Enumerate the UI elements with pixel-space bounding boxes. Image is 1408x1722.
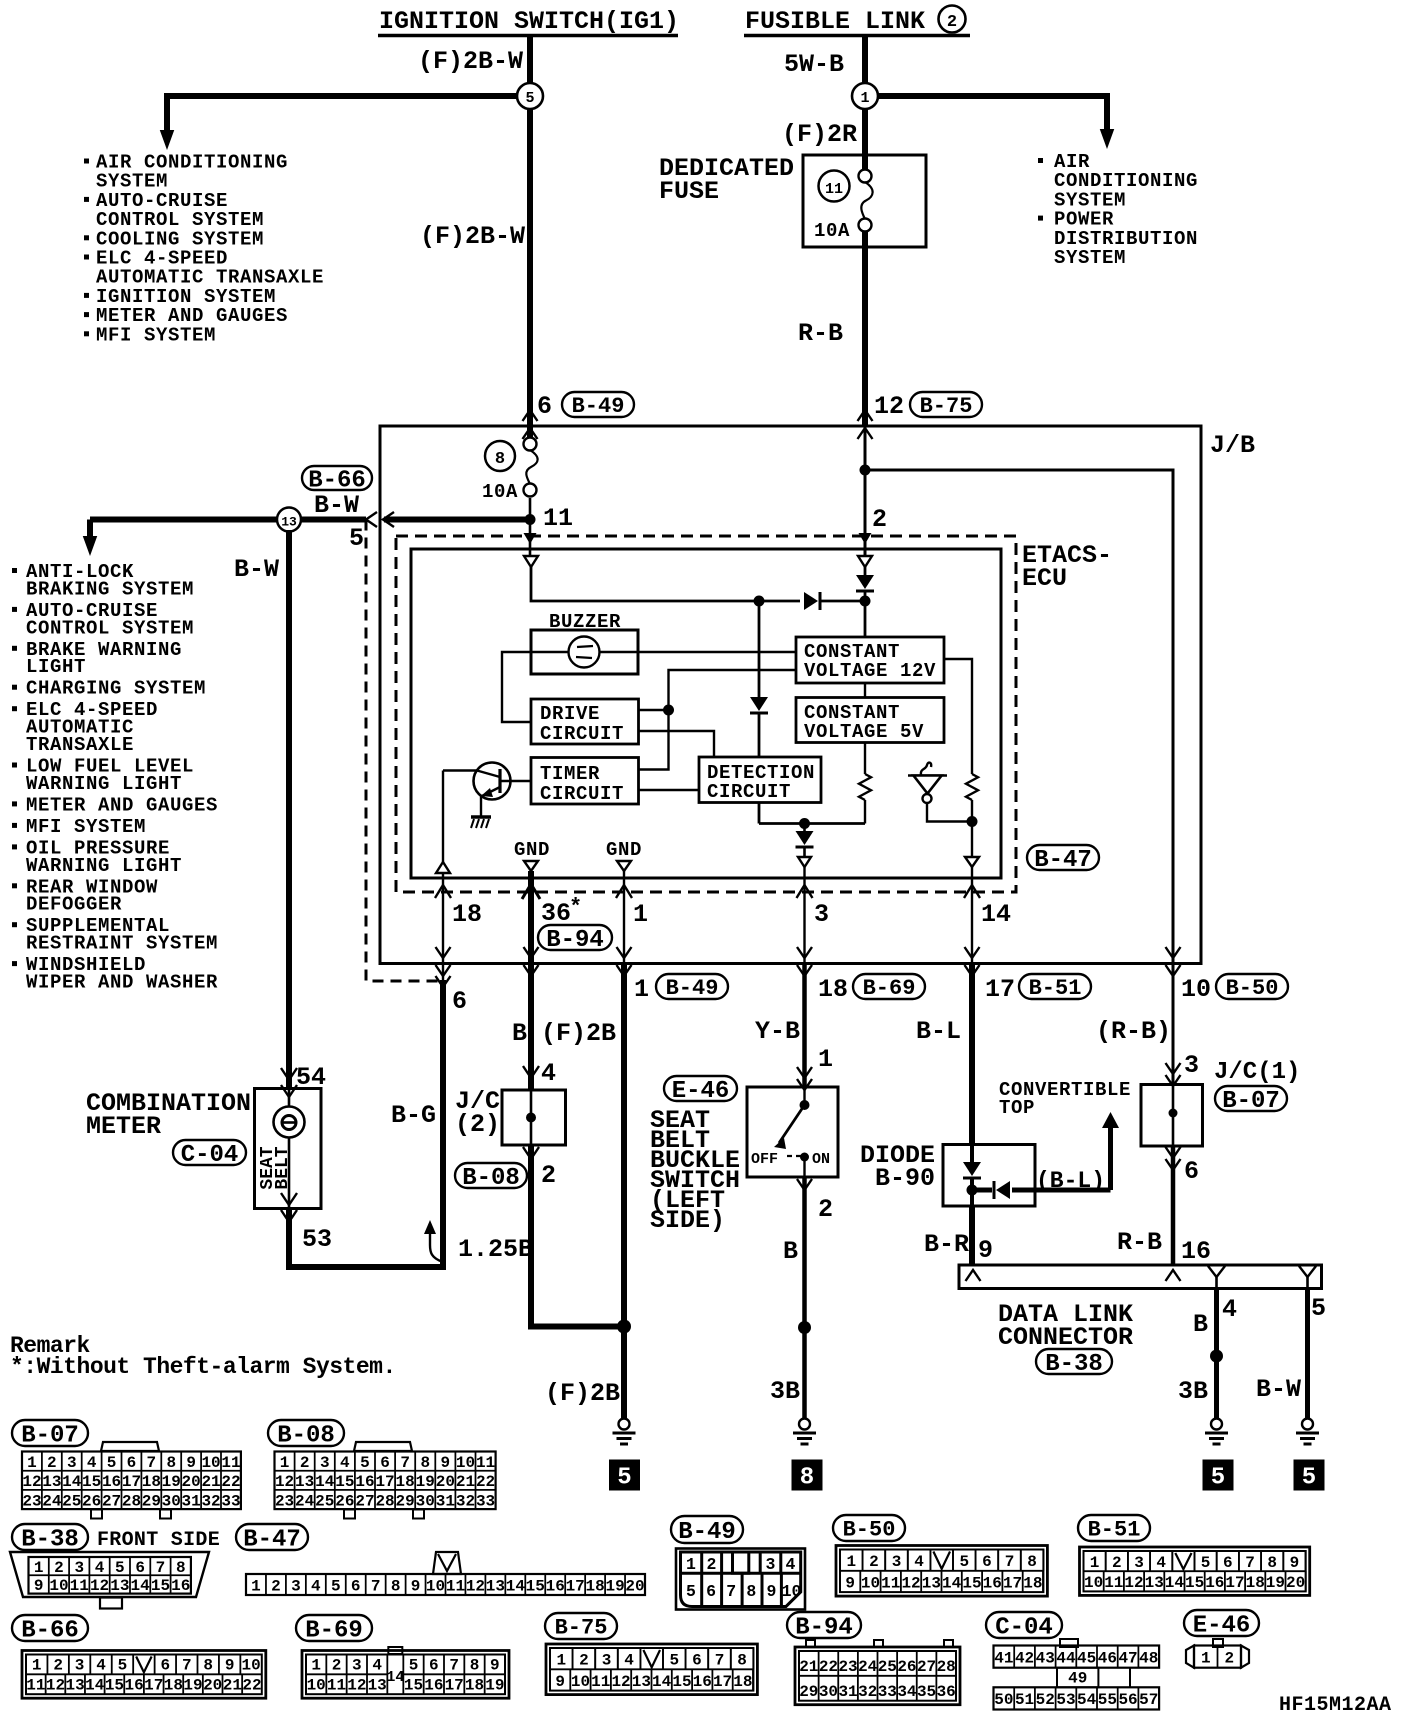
exit pin 1 label with B-49 [634,974,728,1004]
exit Y arrow pin 4 [1208,1266,1225,1288]
ETACS input terminal pin 2 [858,556,872,567]
svg-text:10A: 10A [814,220,850,242]
svg-text:17: 17 [375,1473,394,1491]
svg-text:20: 20 [436,1473,455,1491]
svg-text:33: 33 [878,1683,897,1701]
seat belt lamp symbol [274,1089,305,1209]
svg-text:CONNECTOR: CONNECTOR [998,1323,1133,1352]
diode below pin 2 terminal [856,567,874,637]
svg-text:(F)2B-W: (F)2B-W [418,47,523,76]
svg-text:1: 1 [846,1553,856,1571]
systems list fed by IG1 [84,152,324,347]
svg-text:E-46: E-46 [1193,1612,1251,1639]
svg-text:3: 3 [766,1555,776,1574]
svg-text:14: 14 [981,900,1011,929]
arrow into ETACS dashed edge pin 2 [859,533,872,544]
svg-text:B-47: B-47 [243,1526,301,1553]
arrow to right systems list [1100,129,1115,149]
svg-text:18: 18 [465,1677,484,1695]
svg-text:10: 10 [456,1454,475,1472]
svg-text:TOP: TOP [999,1097,1035,1119]
svg-text:8: 8 [391,1577,401,1595]
svg-text:(F)2B-W: (F)2B-W [420,222,525,251]
exit arrows at J/B bottom [965,947,980,958]
transistor Q1 [443,763,511,829]
svg-text:1: 1 [633,900,648,929]
arrow pin 14 at dashed edge [964,885,980,898]
svg-text:6: 6 [1184,1157,1199,1186]
svg-text:1: 1 [34,1559,44,1577]
connector pinout B-49 [671,1516,805,1610]
svg-text:MFI SYSTEM: MFI SYSTEM [96,324,216,346]
svg-text:B-38: B-38 [21,1526,79,1553]
svg-text:8: 8 [470,1657,480,1675]
svg-text:B-47: B-47 [1034,847,1092,874]
svg-text:11: 11 [446,1577,465,1595]
exit arrows at J/B bottom [436,947,451,958]
power source title IGNITION SWITCH(IG1) [378,7,679,36]
svg-text:5: 5 [349,524,364,553]
label C-04 stadium [173,1140,246,1165]
junction connector J/C(1) box [1141,1085,1203,1147]
svg-text:B-51: B-51 [1088,1518,1141,1543]
wire transistor base to pin 18 terminal [442,771,444,863]
svg-text:1: 1 [1090,1554,1100,1572]
wire drive to detection circuit [639,731,715,757]
svg-text:BRAKING SYSTEM: BRAKING SYSTEM [26,578,194,600]
svg-text:B-94: B-94 [795,1614,853,1641]
wire 12V to 5V box [864,683,866,698]
svg-text:4: 4 [1222,1295,1237,1324]
svg-text:6: 6 [982,1553,992,1571]
svg-text:13: 13 [110,1577,129,1595]
svg-text:10: 10 [1181,975,1211,1004]
arrow to convertible top [1102,1112,1119,1128]
label B-94 stadium [538,925,612,950]
svg-text:12: 12 [275,1473,294,1491]
svg-text:54: 54 [1077,1691,1097,1709]
svg-text:25: 25 [315,1492,334,1510]
arrows into J/C(1) [1166,1063,1181,1074]
svg-text:52: 52 [1036,1691,1055,1709]
resistor R2 [966,774,978,800]
CONVERTIBLE TOP label [999,1079,1131,1119]
svg-text:26: 26 [335,1492,354,1510]
svg-text:2: 2 [1224,1649,1234,1667]
svg-text:10: 10 [861,1574,880,1592]
svg-text:42: 42 [1015,1649,1034,1667]
svg-text:20: 20 [203,1677,222,1695]
connector pinout B-69 [296,1615,509,1698]
diode D on supply bus [759,592,865,610]
connector pinout C-04 [986,1612,1159,1710]
buzzer box [531,630,638,674]
entry arrows pin 6 [523,410,538,421]
svg-text:50: 50 [994,1691,1013,1709]
wire to convertible top [1108,1128,1113,1190]
entry arrow pin 16 [1166,1270,1181,1281]
arrow at dashed extension crossing [436,976,451,987]
svg-text:7: 7 [156,1559,166,1577]
svg-text:B-50: B-50 [1226,976,1279,1001]
svg-text:B-69: B-69 [863,976,916,1001]
svg-text:10: 10 [49,1577,68,1595]
wire pin36 B to J/C(2) [528,964,534,1091]
svg-text:18: 18 [396,1473,415,1491]
svg-text:5: 5 [617,1465,631,1492]
svg-text:B-49: B-49 [666,976,719,1001]
svg-text:17: 17 [566,1577,585,1595]
connector pinout B-08 [268,1420,496,1519]
svg-text:B-W: B-W [1256,1375,1301,1404]
svg-text:B: B [1193,1310,1208,1339]
svg-text:10: 10 [426,1577,445,1595]
svg-text:9: 9 [766,1582,776,1601]
svg-text:31: 31 [436,1492,455,1510]
wire B-W down to combination meter [286,530,292,1088]
svg-text:FRONT SIDE: FRONT SIDE [97,1529,220,1552]
svg-text:12: 12 [22,1473,41,1491]
svg-text:15: 15 [335,1473,354,1491]
svg-text:15: 15 [962,1574,981,1592]
svg-text:2: 2 [707,1555,717,1574]
arrowheads B-W leaving J/B [366,512,377,527]
svg-text:6: 6 [706,1582,716,1601]
svg-text:13: 13 [632,1673,651,1691]
svg-text:B-W: B-W [314,491,359,520]
svg-text:2: 2 [947,13,957,32]
svg-text:11: 11 [70,1577,89,1595]
arrows into J/C(2) [523,1066,539,1078]
svg-text:ECU: ECU [1022,564,1067,593]
svg-text:53: 53 [302,1225,332,1254]
svg-text:3: 3 [75,1657,85,1675]
svg-text:24: 24 [295,1492,315,1510]
svg-text:21: 21 [799,1658,818,1676]
junction dot pin2 bus [860,596,871,607]
label B-08 stadium [455,1163,527,1188]
svg-text:J/C(1): J/C(1) [1214,1059,1300,1086]
CONSTANT VOLTAGE 5V box [796,698,944,744]
wire pin 1 to J/B bottom [623,871,625,963]
arrow down to braking systems list [87,520,93,539]
svg-text:C-04: C-04 [995,1614,1053,1641]
svg-text:16: 16 [983,1574,1002,1592]
exit arrows at J/B bottom [617,947,632,958]
svg-text:28: 28 [122,1492,141,1510]
wire pin 18 to J/B bottom [442,873,444,963]
diode to pin 3 [796,824,814,858]
splice junction circle 5 [517,83,543,109]
svg-text:14: 14 [386,1669,404,1686]
svg-text:6: 6 [452,987,467,1016]
svg-text:2: 2 [872,505,887,534]
svg-text:15: 15 [404,1677,423,1695]
svg-text:GND: GND [606,839,642,861]
svg-text:30: 30 [416,1492,435,1510]
svg-text:5: 5 [686,1582,696,1601]
svg-text:LIGHT: LIGHT [26,656,86,678]
svg-text:7: 7 [371,1577,381,1595]
svg-text:FUSIBLE LINK: FUSIBLE LINK [745,7,925,36]
wire ignition switch feed down [527,37,533,446]
svg-text:10A: 10A [482,481,518,503]
svg-text:57: 57 [1139,1691,1158,1709]
arrow pin 1 at dashed edge [616,885,632,898]
svg-text:3: 3 [602,1651,612,1669]
svg-text:B-R: B-R [924,1230,969,1259]
arrows into combination meter [281,1068,297,1080]
connector pinout B-47 [236,1524,645,1595]
exit arrows at J/B bottom [1166,947,1181,958]
wire pin 3 to J/B bottom [803,867,805,963]
svg-text:20: 20 [625,1577,644,1595]
svg-text:23: 23 [275,1492,294,1510]
svg-text:2: 2 [53,1657,63,1675]
wire pin1 (F)2B to ground [621,964,627,1419]
svg-text:16: 16 [424,1677,443,1695]
svg-text:13: 13 [922,1574,941,1592]
svg-text:2: 2 [271,1577,281,1595]
svg-text:11: 11 [1104,1574,1123,1592]
svg-text:2: 2 [818,1195,833,1224]
svg-text:24: 24 [42,1492,62,1510]
svg-text:(B-L): (B-L) [1036,1168,1105,1194]
svg-text:(F)2R: (F)2R [782,120,857,149]
svg-text:8: 8 [495,450,505,469]
svg-text:21: 21 [223,1677,242,1695]
svg-text:9: 9 [845,1574,855,1592]
svg-text:4: 4 [311,1577,321,1595]
wire timer input from transistor [500,780,531,782]
svg-text:30: 30 [819,1683,838,1701]
svg-text:12: 12 [611,1673,630,1691]
svg-text:B-G: B-G [391,1101,436,1130]
svg-text:9: 9 [186,1454,196,1472]
svg-text:18: 18 [164,1677,183,1695]
svg-text:ON: ON [812,1151,830,1168]
svg-text:14: 14 [315,1473,335,1491]
svg-text:IGNITION SWITCH(IG1): IGNITION SWITCH(IG1) [379,7,679,36]
svg-text:12: 12 [466,1577,485,1595]
svg-text:14: 14 [652,1673,672,1691]
svg-text:17: 17 [445,1677,464,1695]
svg-text:6: 6 [135,1559,145,1577]
svg-text:6: 6 [351,1577,361,1595]
wire drive to 12V box [639,670,797,710]
svg-text:1.25B: 1.25B [458,1235,533,1264]
junction dot pin14 branch [967,816,978,827]
svg-text:5: 5 [1211,1465,1225,1492]
svg-text:B-49: B-49 [572,394,625,419]
svg-text:14: 14 [85,1677,105,1695]
ETACS output terminal pin 18 [436,862,450,873]
svg-text:4: 4 [786,1555,796,1574]
J/C (2) label [455,1087,500,1139]
svg-text:(R-B): (R-B) [1096,1017,1171,1046]
svg-text:12: 12 [874,392,904,421]
svg-text:1: 1 [27,1454,37,1472]
svg-text:13: 13 [66,1677,85,1695]
svg-text:B-07: B-07 [21,1422,79,1449]
svg-text:3: 3 [74,1559,84,1577]
svg-text:1: 1 [556,1651,566,1669]
svg-text:B-W: B-W [234,555,279,584]
svg-text:25: 25 [878,1658,897,1676]
svg-text:36: 36 [541,899,571,928]
svg-text:CHARGING SYSTEM: CHARGING SYSTEM [26,678,206,700]
svg-text:17: 17 [144,1677,163,1695]
label B-47 stadium [1027,845,1099,870]
svg-text:3B: 3B [770,1377,800,1406]
svg-text:WIPER AND WASHER: WIPER AND WASHER [26,972,218,994]
svg-text:12: 12 [347,1677,366,1695]
svg-text:6: 6 [692,1651,702,1669]
DETECTION CIRCUIT box [699,757,821,803]
wire B-W to left out of J/B [384,517,530,523]
svg-text:9: 9 [411,1577,421,1595]
svg-text:1: 1 [280,1454,290,1472]
connector pinout B-66 [12,1615,266,1698]
COMBINATION METER label [86,1089,251,1141]
svg-text:2: 2 [869,1553,879,1571]
svg-text:*: * [569,895,582,920]
svg-text:32: 32 [201,1492,220,1510]
svg-text:GND: GND [514,839,550,861]
svg-text:5: 5 [115,1559,125,1577]
arrows out of switch [797,1179,812,1190]
svg-text:51: 51 [1015,1691,1034,1709]
wire 5V box to resistor [864,743,866,775]
remark note [10,1333,396,1380]
wire R-B branch inside J/B [865,470,1173,963]
svg-text:METER: METER [86,1112,161,1141]
svg-text:14: 14 [62,1473,82,1491]
svg-text:(F)2B: (F)2B [545,1379,620,1408]
power source title FUSIBLE LINK 2 [744,6,970,37]
svg-text:19: 19 [1266,1574,1285,1592]
svg-text:31: 31 [182,1492,201,1510]
wire B-W left run [90,517,366,523]
svg-text:14: 14 [506,1577,526,1595]
junction dot ground wire [617,1320,631,1334]
svg-text:B-75: B-75 [555,1616,608,1641]
combination meter box [255,1089,322,1209]
svg-text:7: 7 [400,1454,410,1472]
connector pinout B-50 [833,1515,1047,1596]
svg-text:3: 3 [892,1553,902,1571]
ETACS-ECU boundary dashed extension [366,520,443,982]
svg-text:13: 13 [42,1473,61,1491]
svg-text:19: 19 [416,1473,435,1491]
svg-text:8: 8 [166,1454,176,1472]
svg-text:(F)2B: (F)2B [541,1019,616,1048]
ground G2 [799,1419,810,1430]
svg-text:36: 36 [937,1683,956,1701]
svg-text:7: 7 [715,1651,725,1669]
svg-text:B-08: B-08 [462,1165,520,1192]
GND terminal 1 [617,861,631,871]
junction dot on bus [754,596,765,607]
ETACS input terminal pin 11 [524,556,538,567]
GND terminal 36 [524,861,538,871]
svg-text:16: 16 [355,1473,374,1491]
svg-text:2: 2 [1112,1554,1122,1572]
svg-text:8: 8 [1027,1553,1037,1571]
svg-text:22: 22 [221,1473,240,1491]
svg-text:17: 17 [122,1473,141,1491]
ground marker 5 [609,1460,640,1491]
svg-text:28: 28 [937,1658,956,1676]
wire into ETACS pin 11 [529,519,532,556]
svg-text:8: 8 [176,1559,186,1577]
svg-text:12: 12 [46,1677,65,1695]
svg-text:3: 3 [1184,1051,1199,1080]
exit pin 17 label with B-51 [985,974,1091,1004]
svg-text:14: 14 [942,1574,962,1592]
svg-text:43: 43 [1036,1649,1055,1667]
splice junction circle 1 [852,83,878,109]
svg-text:27: 27 [355,1492,374,1510]
svg-text:2: 2 [579,1651,589,1669]
wire J/B entry 12 down to ETACS pin 2 [864,426,867,556]
svg-text:11: 11 [327,1677,346,1695]
svg-text:B-90: B-90 [875,1164,935,1193]
svg-text:8: 8 [420,1454,430,1472]
svg-text:11: 11 [825,181,843,198]
connector pinout B-94 [787,1612,960,1705]
svg-text:10: 10 [241,1657,260,1675]
svg-text:Y-B: Y-B [755,1017,800,1046]
entry arrow pin 9 [966,1270,981,1281]
svg-text:10: 10 [307,1677,326,1695]
svg-text:15: 15 [151,1577,170,1595]
junction dot B-W branch [525,514,536,525]
svg-text:E-46: E-46 [672,1078,730,1105]
svg-text:OFF: OFF [751,1151,778,1168]
svg-text:1: 1 [251,1577,261,1595]
svg-text:J/B: J/B [1210,431,1255,460]
svg-text:27: 27 [102,1492,121,1510]
svg-text:B-51: B-51 [1029,976,1082,1001]
svg-text:4: 4 [914,1553,924,1571]
ETACS output terminal pin 3 [798,857,811,867]
arrow to left systems list [160,130,175,150]
wire timer to detection circuit [639,789,700,791]
svg-text:53: 53 [1056,1691,1075,1709]
svg-text:10: 10 [571,1673,590,1691]
label E-46 stadium [664,1076,737,1101]
wire fuse 8 to ETACS pin 11 [529,498,532,519]
label B-38 stadium [1036,1349,1112,1374]
svg-text:16: 16 [1181,1237,1211,1266]
svg-text:15: 15 [1185,1574,1204,1592]
svg-text:B-38: B-38 [1045,1351,1103,1378]
wire from pin 11 terminal to bus [531,567,759,601]
svg-text:C-04: C-04 [181,1142,239,1169]
svg-text:4: 4 [87,1454,97,1472]
DATA LINK CONNECTOR box [959,1265,1322,1289]
exit arrows at J/B bottom [524,947,539,958]
connector pinout E-46 [1184,1610,1259,1668]
label B-07 stadium [1215,1086,1287,1111]
svg-text:6: 6 [380,1454,390,1472]
svg-text:8: 8 [746,1582,756,1601]
svg-text:4: 4 [372,1657,382,1675]
svg-text:9: 9 [225,1657,235,1675]
ground marker 8 [792,1460,823,1491]
ETACS output terminal pin 14 [965,857,979,867]
